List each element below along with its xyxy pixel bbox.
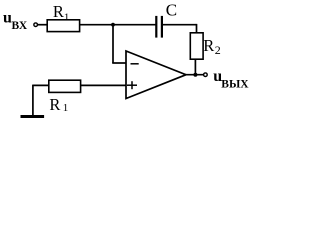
svg-text:R: R	[203, 36, 214, 55]
wire corner down to R2	[196, 24, 198, 33]
output junction dot	[193, 73, 197, 77]
wire R1 to capacitor (through node A)	[80, 24, 156, 26]
label R2	[203, 36, 221, 57]
op-amp minus sign	[131, 63, 139, 65]
svg-text:R: R	[53, 2, 64, 21]
wire node A down	[112, 25, 114, 63]
label u_ВЫХ	[213, 68, 249, 91]
resistor R2	[190, 33, 203, 59]
wire input terminal to R1	[38, 24, 48, 26]
wire R1 bottom to non-inverting input	[81, 84, 126, 86]
label u_ВХ	[3, 10, 28, 32]
label R1 (bottom)	[49, 95, 68, 114]
svg-text:1: 1	[63, 102, 69, 114]
wire to inverting input	[112, 62, 126, 64]
svg-text:2: 2	[215, 43, 221, 57]
svg-text:1: 1	[64, 11, 70, 23]
capacitor C	[155, 16, 157, 38]
resistor R1 (top)	[47, 20, 79, 32]
wire R1 bottom left to ground corner	[33, 84, 49, 86]
node A junction dot	[111, 23, 115, 27]
op-amp U1	[126, 51, 186, 99]
op-amp plus sign	[127, 84, 137, 86]
svg-text:ВХ: ВХ	[12, 20, 28, 32]
resistor R1 (bottom)	[49, 80, 81, 92]
svg-text:C: C	[166, 1, 177, 20]
output terminal node u_ВЫХ	[204, 73, 208, 77]
ground	[21, 115, 45, 118]
svg-text:R: R	[49, 95, 60, 114]
wire R2 to output junction	[194, 59, 196, 74]
label C	[166, 1, 177, 20]
input terminal node u_ВХ	[34, 23, 38, 27]
label R1 (top)	[53, 2, 70, 24]
svg-text:ВЫХ: ВЫХ	[221, 79, 249, 91]
wire op-amp output to terminal	[185, 74, 204, 76]
wire capacitor to corner above R2	[163, 24, 197, 26]
